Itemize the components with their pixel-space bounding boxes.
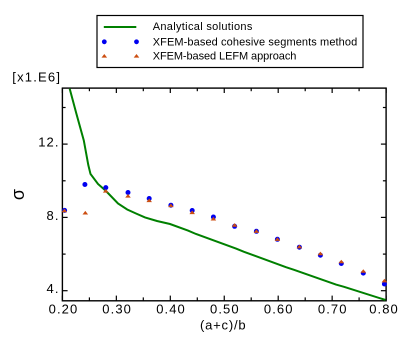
svg-text:0.80: 0.80 bbox=[369, 302, 399, 317]
svg-text:XFEM-based cohesive segments m: XFEM-based cohesive segments method bbox=[153, 37, 358, 49]
svg-text:0.40: 0.40 bbox=[156, 302, 186, 317]
svg-text:(a+c)/b: (a+c)/b bbox=[200, 318, 246, 333]
svg-text:XFEM-based LEFM approach: XFEM-based LEFM approach bbox=[153, 51, 297, 63]
svg-text:4.: 4. bbox=[47, 281, 60, 296]
svg-text:0.20: 0.20 bbox=[49, 302, 79, 317]
svg-text:Analytical solutions: Analytical solutions bbox=[153, 21, 253, 33]
svg-text:0.50: 0.50 bbox=[210, 302, 240, 317]
svg-text:12.: 12. bbox=[38, 135, 59, 150]
svg-text:σ: σ bbox=[8, 189, 28, 200]
svg-text:0.30: 0.30 bbox=[102, 302, 132, 317]
svg-text:[x1.E6]: [x1.E6] bbox=[12, 70, 61, 85]
svg-text:0.70: 0.70 bbox=[318, 302, 348, 317]
svg-text:0.60: 0.60 bbox=[264, 302, 294, 317]
svg-text:8.: 8. bbox=[47, 208, 60, 223]
